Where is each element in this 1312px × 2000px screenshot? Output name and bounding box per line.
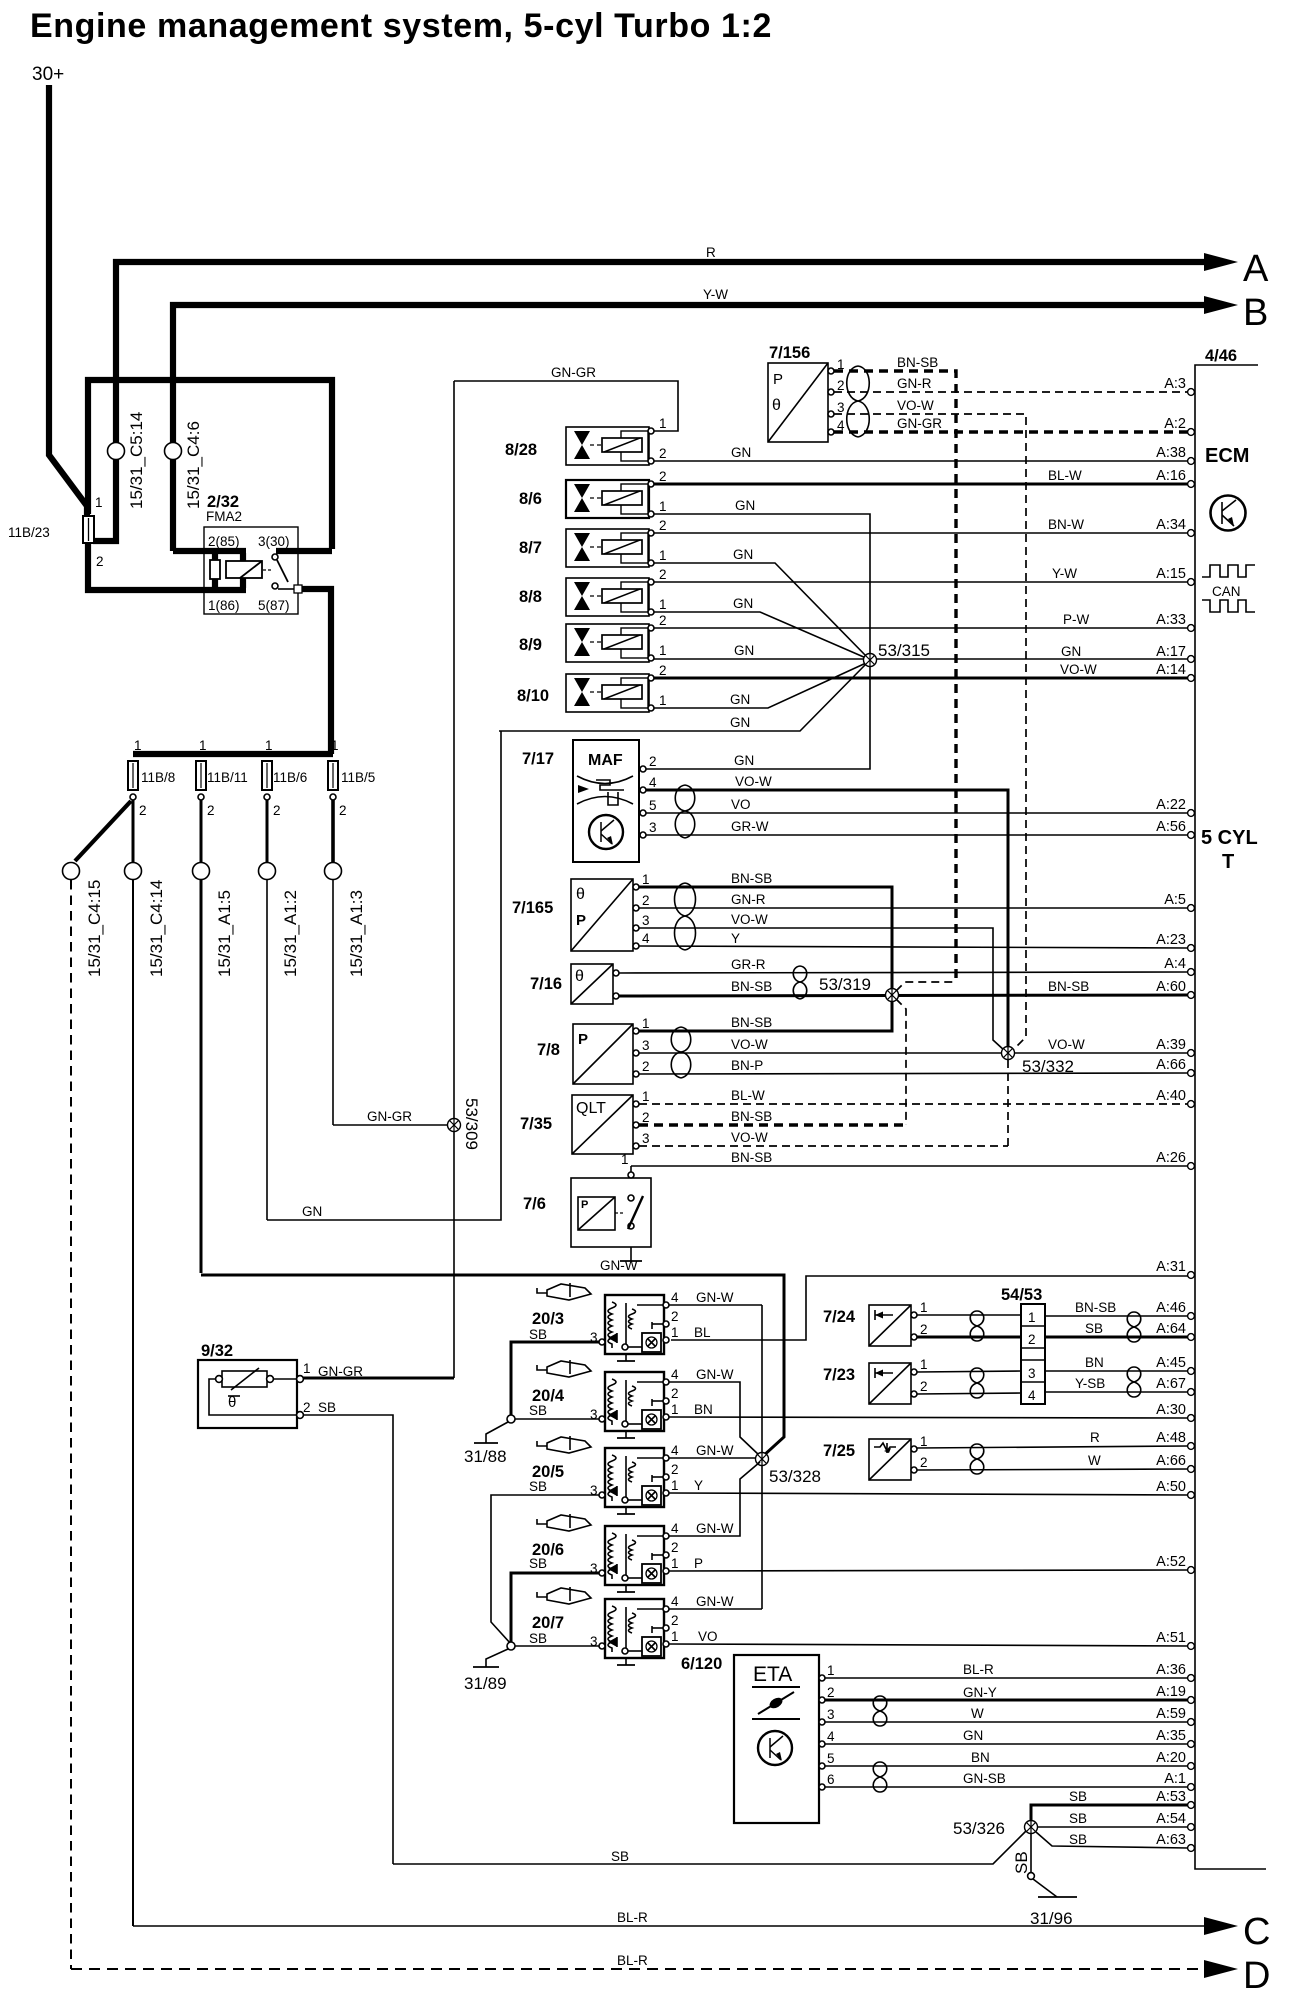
wire 20/3 GN-W	[669, 1304, 762, 1306]
svg-text:A:31: A:31	[1156, 1259, 1186, 1275]
svg-text:15/31_A1:3: 15/31_A1:3	[347, 890, 366, 977]
wire 20/5 GN-W through splice	[669, 1457, 757, 1459]
svg-text:MAF: MAF	[588, 752, 623, 769]
svg-text:GN-W: GN-W	[696, 1367, 734, 1382]
svg-text:2: 2	[649, 754, 657, 769]
svg-text:31/88: 31/88	[464, 1447, 507, 1466]
svg-text:A:3: A:3	[1164, 376, 1186, 392]
splice 53/309	[448, 1098, 482, 1150]
twisted pair 7/23	[970, 1368, 984, 1398]
svg-text:7/156: 7/156	[769, 344, 810, 362]
svg-text:Y-SB: Y-SB	[1075, 1376, 1105, 1391]
svg-text:2: 2	[659, 613, 667, 628]
svg-text:20/3: 20/3	[532, 1310, 564, 1328]
svg-text:A:14: A:14	[1156, 662, 1186, 678]
svg-text:11B/5: 11B/5	[341, 770, 375, 785]
svg-text:A: A	[1243, 248, 1269, 290]
wire relay coil 2(85)	[173, 548, 246, 554]
wire QLT pin2 BN-SB dashed	[639, 1123, 906, 1126]
svg-text:BN: BN	[971, 1750, 990, 1765]
ignition coil 20/5	[529, 1443, 679, 1514]
twisted pair 7/16	[793, 966, 807, 999]
svg-text:8/28: 8/28	[505, 441, 537, 459]
fuse 11B/23	[83, 516, 94, 543]
svg-text:5: 5	[649, 798, 657, 813]
svg-text:A:54: A:54	[1156, 1811, 1186, 1827]
sensor QLT 7/35	[520, 1089, 650, 1154]
wire 54/53 SB to A:64	[1045, 1336, 1188, 1339]
svg-text:P: P	[576, 912, 586, 929]
svg-text:8/9: 8/9	[519, 636, 542, 654]
svg-text:SB: SB	[529, 1556, 547, 1571]
sensor 9/32	[198, 1342, 311, 1428]
wire relay feed 3(30)	[276, 548, 332, 554]
ignition coil 20/4	[529, 1367, 679, 1438]
svg-text:15/31_C4:6: 15/31_C4:6	[184, 421, 203, 509]
connector 15/31_C4:15	[63, 863, 80, 880]
svg-text:VO: VO	[731, 797, 751, 812]
svg-text:3: 3	[837, 400, 845, 415]
svg-text:A:1: A:1	[1164, 1771, 1186, 1787]
svg-text:SB: SB	[1069, 1811, 1087, 1826]
svg-text:A:17: A:17	[1156, 644, 1186, 660]
svg-text:GN: GN	[731, 445, 751, 460]
svg-text:3: 3	[642, 1131, 650, 1146]
wire 53/332 dashed link to QLT pin3	[1007, 1060, 1009, 1146]
svg-text:7/24: 7/24	[823, 1308, 856, 1326]
svg-text:A:45: A:45	[1156, 1355, 1186, 1371]
wire BL-R to C	[133, 1925, 1206, 1927]
svg-text:1: 1	[303, 1361, 311, 1376]
wire 7/156 pin2 GN-R dashed to A:3	[834, 391, 1188, 393]
svg-text:BL-R: BL-R	[617, 1910, 648, 1925]
svg-text:2: 2	[642, 1110, 650, 1125]
svg-text:VO-W: VO-W	[731, 1130, 768, 1145]
svg-text:BN-SB: BN-SB	[897, 355, 938, 370]
fuse 11B/6	[262, 761, 272, 790]
svg-text:A:53: A:53	[1156, 1789, 1186, 1805]
svg-text:A:20: A:20	[1156, 1750, 1186, 1766]
wire 7/25 pin1 R to A:48	[917, 1446, 1188, 1448]
svg-text:A:40: A:40	[1156, 1088, 1186, 1104]
svg-text:7/165: 7/165	[512, 899, 553, 917]
wire 7/25 pin2 W to A:66	[917, 1469, 1188, 1470]
svg-text:A:66: A:66	[1156, 1453, 1186, 1469]
svg-text:A:52: A:52	[1156, 1554, 1186, 1570]
wire coil GN-W bus	[761, 1305, 763, 1609]
fuse 11B/5	[328, 761, 338, 790]
svg-text:BN: BN	[694, 1402, 713, 1417]
svg-text:1: 1	[331, 738, 339, 753]
svg-text:1: 1	[95, 495, 103, 510]
wire QLT pin1 BL-W dashed to A:40	[639, 1103, 1188, 1105]
wire 20/7 SB row	[511, 1645, 599, 1647]
svg-text:GN: GN	[302, 1204, 322, 1219]
svg-text:11B/23: 11B/23	[8, 525, 50, 540]
svg-text:Y: Y	[731, 931, 740, 946]
wire GN-GR rail to injector 8/28	[454, 381, 678, 431]
svg-text:GN: GN	[734, 753, 754, 768]
svg-text:A:36: A:36	[1156, 1662, 1186, 1678]
svg-text:4: 4	[1028, 1388, 1036, 1403]
wire 53/319 dashed link to 7/156	[896, 982, 956, 991]
sensor 7/165	[512, 872, 650, 951]
svg-text:2: 2	[671, 1540, 679, 1555]
svg-text:6: 6	[827, 1772, 835, 1787]
svg-text:1: 1	[920, 1434, 928, 1449]
wire ETA pin5 BN to A:20	[825, 1765, 1188, 1767]
svg-text:SB: SB	[1085, 1321, 1103, 1336]
svg-text:SB: SB	[1069, 1789, 1087, 1804]
wire 54/53 BN-SB to A:46	[1045, 1315, 1188, 1317]
wire 8/6 pin1 GN down to splice	[646, 514, 870, 769]
svg-text:2: 2	[1028, 1332, 1036, 1347]
pressure switch 7/6	[523, 1172, 651, 1261]
svg-text:3: 3	[642, 1038, 650, 1053]
svg-text:GN-GR: GN-GR	[367, 1109, 412, 1124]
svg-text:1: 1	[659, 597, 667, 612]
svg-text:3: 3	[649, 820, 657, 835]
svg-text:A:46: A:46	[1156, 1300, 1186, 1316]
svg-text:3: 3	[827, 1707, 835, 1722]
twisted pair A45/A67	[1127, 1367, 1141, 1397]
svg-text:8/7: 8/7	[519, 539, 542, 557]
wire SB bus	[393, 1831, 1026, 1864]
svg-text:15/31_C5:14: 15/31_C5:14	[127, 412, 146, 509]
sensor 7/8	[537, 1016, 650, 1084]
twisted pair 7/24	[970, 1311, 984, 1341]
svg-text:20/7: 20/7	[532, 1614, 564, 1632]
svg-text:BN-SB: BN-SB	[731, 1015, 772, 1030]
spark plug 20/6	[537, 1514, 591, 1531]
arrow C	[1204, 1917, 1238, 1935]
svg-text:Y: Y	[694, 1478, 703, 1493]
wire ETA pin3 W to A:59	[825, 1721, 1188, 1723]
MAF 7/17	[522, 740, 657, 862]
wire GN-GR feeder	[332, 880, 334, 1125]
wire 7/16 GR-R to A:4	[619, 972, 1188, 973]
svg-text:4/46: 4/46	[1205, 347, 1237, 365]
wire 7/156 pin4 GN-GR dashed to A:2	[834, 430, 1188, 433]
wire 9/32 pin2 SB	[303, 1415, 393, 1864]
wire 20/5 SB	[491, 1495, 599, 1644]
svg-text:53/315: 53/315	[878, 641, 930, 660]
wire 7/156 pin3 VO-W dashed	[834, 414, 1026, 1052]
svg-text:1: 1	[671, 1402, 679, 1417]
svg-text:1: 1	[827, 1663, 835, 1678]
svg-text:4: 4	[671, 1594, 679, 1609]
svg-text:A:51: A:51	[1156, 1630, 1186, 1646]
svg-text:A:63: A:63	[1156, 1832, 1186, 1848]
svg-text:VO: VO	[698, 1629, 718, 1644]
twisted pair 7/165	[675, 883, 696, 950]
svg-text:1: 1	[642, 1016, 650, 1031]
wire 20/7 GN-W	[669, 1608, 762, 1610]
svg-text:53/309: 53/309	[462, 1098, 481, 1150]
svg-text:1: 1	[1028, 1310, 1036, 1325]
svg-text:GN: GN	[963, 1728, 983, 1743]
wire 8/7 pin2 BN-W to A:34	[654, 532, 1188, 534]
wire MAF pin5 VO to A:22	[646, 812, 1188, 814]
node vertical 53/309 feeder	[453, 381, 455, 1378]
svg-text:1(86): 1(86)	[208, 598, 240, 613]
wire 54/53 BN to A:45	[1045, 1370, 1188, 1372]
svg-text:GN-R: GN-R	[897, 376, 932, 391]
svg-text:A:35: A:35	[1156, 1728, 1186, 1744]
svg-text:GN: GN	[730, 692, 750, 707]
wire 7/165 pin2 GN-R to A:5	[639, 907, 1188, 909]
svg-text:θ: θ	[772, 397, 781, 414]
svg-text:BL-W: BL-W	[731, 1088, 765, 1103]
svg-text:ETA: ETA	[753, 1663, 792, 1686]
throttle unit ETA 6/120	[681, 1655, 835, 1823]
wire GN feeder	[266, 880, 268, 1220]
wire MAF pin3 GR-W to A:56	[646, 834, 1188, 836]
svg-text:1: 1	[621, 1152, 629, 1167]
svg-text:B: B	[1243, 292, 1268, 334]
svg-text:GR-W: GR-W	[731, 819, 769, 834]
twisted pair ETA 5-6	[873, 1762, 887, 1792]
wire 9/32 pin1 GN-GR	[303, 1377, 454, 1380]
connector 54/53	[1001, 1286, 1045, 1404]
twisted pair 7/156	[847, 366, 870, 437]
svg-text:53/319: 53/319	[819, 975, 871, 994]
svg-text:VO-W: VO-W	[1048, 1037, 1085, 1052]
wire 7/23 pin2 to 54/53	[917, 1393, 1021, 1394]
svg-text:GN: GN	[735, 498, 755, 513]
wire supply box	[88, 543, 246, 590]
svg-text:W: W	[971, 1706, 984, 1721]
svg-text:5: 5	[827, 1751, 835, 1766]
svg-text:VO-W: VO-W	[735, 774, 772, 789]
svg-text:8/6: 8/6	[519, 490, 542, 508]
svg-text:2(85): 2(85)	[208, 534, 240, 549]
ignition coil 20/6	[529, 1521, 679, 1592]
svg-text:SB: SB	[529, 1327, 547, 1342]
svg-text:T: T	[1222, 851, 1234, 873]
svg-text:A:48: A:48	[1156, 1430, 1186, 1446]
wire 7/8 pin2 BN-P to A:66	[639, 1073, 1188, 1074]
fuse output terminals	[130, 794, 136, 800]
ignition coil 20/7	[529, 1594, 679, 1665]
svg-text:15/31_A1:2: 15/31_A1:2	[281, 890, 300, 977]
wire 8/9 pin1 GN to A:17 through splice	[654, 658, 1188, 660]
svg-text:A:59: A:59	[1156, 1706, 1186, 1722]
svg-text:BN-SB: BN-SB	[731, 871, 772, 886]
svg-text:θ: θ	[575, 968, 584, 985]
svg-text:BN-SB: BN-SB	[731, 979, 772, 994]
svg-text:GN: GN	[733, 596, 753, 611]
svg-text:1: 1	[920, 1300, 928, 1315]
sensor 7/156	[768, 344, 845, 442]
svg-text:2: 2	[659, 567, 667, 582]
svg-text:2: 2	[642, 1059, 650, 1074]
connector 15/31_A1:3	[325, 863, 342, 880]
wire 5(87) down	[302, 589, 331, 754]
wire 7/8 pin3 VO-W to A:39	[639, 1052, 1188, 1054]
svg-text:1: 1	[199, 738, 207, 753]
svg-text:2: 2	[671, 1462, 679, 1477]
svg-text:A:39: A:39	[1156, 1037, 1186, 1053]
wire 7/165 pin1 BN-SB	[637, 887, 892, 1031]
svg-text:BN-P: BN-P	[731, 1058, 763, 1073]
svg-text:4: 4	[671, 1521, 679, 1536]
ground 31/89	[464, 1642, 515, 1693]
svg-text:P: P	[694, 1556, 703, 1571]
sensor 7/24	[823, 1300, 928, 1346]
wire diagonal to C4:15	[75, 801, 131, 861]
svg-text:53/328: 53/328	[769, 1467, 821, 1486]
svg-text:1: 1	[642, 872, 650, 887]
wire GN rail	[267, 731, 501, 1220]
ECM transistor symbol	[1211, 496, 1246, 531]
wire 7/165 pin3 VO-W to 53/332	[639, 928, 1005, 1051]
wire A1:3 drop	[331, 800, 335, 863]
splice 53/326	[953, 1819, 1038, 1838]
wire C feeder	[132, 880, 134, 1926]
svg-text:A:33: A:33	[1156, 612, 1186, 628]
svg-text:1: 1	[659, 643, 667, 658]
svg-text:7/17: 7/17	[522, 750, 554, 768]
fuse 11B/8	[128, 761, 138, 790]
wire ETA pin6 GN-SB to A:1	[825, 1786, 1188, 1788]
wire MAF pin4 VO-W to 53/332	[646, 790, 1008, 1049]
injector 8/7	[519, 518, 667, 567]
svg-text:GN-W: GN-W	[600, 1258, 638, 1273]
wire color labels near ECM	[1048, 468, 1116, 1847]
connector 15/31_C5:14	[108, 443, 125, 460]
wire B (Y-W)	[173, 305, 1206, 551]
wire 8/8 pin1 GN diagonal	[654, 612, 866, 658]
svg-text:7/8: 7/8	[537, 1041, 560, 1059]
svg-text:2: 2	[273, 803, 281, 818]
svg-text:2: 2	[207, 803, 215, 818]
svg-text:A:2: A:2	[1164, 416, 1186, 432]
svg-text:Engine management system, 5-cy: Engine management system, 5-cyl Turbo 1:…	[30, 7, 772, 45]
svg-text:9/32: 9/32	[201, 1342, 233, 1360]
svg-text:7/35: 7/35	[520, 1115, 552, 1133]
svg-text:SB: SB	[1012, 1851, 1031, 1874]
svg-text:1: 1	[659, 416, 667, 431]
svg-text:5 CYL: 5 CYL	[1201, 827, 1258, 849]
svg-text:3(30): 3(30)	[258, 534, 290, 549]
twisted pair 7/25	[970, 1444, 984, 1474]
svg-text:R: R	[1090, 1430, 1100, 1445]
wire 20/6 SB	[511, 1573, 599, 1644]
svg-text:1: 1	[642, 1089, 650, 1104]
injector 8/8	[519, 567, 667, 616]
spark plug 20/4	[537, 1360, 591, 1377]
svg-text:CAN: CAN	[1212, 584, 1241, 599]
svg-text:2: 2	[659, 663, 667, 678]
svg-text:BL: BL	[694, 1325, 711, 1340]
splice 53/332	[1002, 1047, 1075, 1077]
svg-text:BN-W: BN-W	[1048, 517, 1084, 532]
svg-text:SB: SB	[529, 1403, 547, 1418]
svg-text:1: 1	[659, 499, 667, 514]
svg-text:4: 4	[671, 1367, 679, 1382]
svg-text:VO-W: VO-W	[897, 398, 934, 413]
svg-text:2: 2	[837, 378, 845, 393]
svg-text:GN-Y: GN-Y	[963, 1685, 997, 1700]
svg-text:7/6: 7/6	[523, 1195, 546, 1213]
svg-text:GN-GR: GN-GR	[897, 416, 942, 431]
svg-text:GR-R: GR-R	[731, 957, 766, 972]
svg-text:4: 4	[649, 775, 657, 790]
wire 53/319 dashed link to QLT pin2	[896, 999, 906, 1125]
svg-text:11B/8: 11B/8	[141, 770, 175, 785]
wire C4:14 drop	[132, 800, 135, 863]
svg-text:QLT: QLT	[576, 1100, 606, 1117]
svg-text:2: 2	[96, 554, 104, 569]
svg-text:GN-W: GN-W	[696, 1521, 734, 1536]
svg-text:1: 1	[671, 1556, 679, 1571]
svg-text:P: P	[578, 1031, 588, 1048]
svg-text:8/10: 8/10	[517, 687, 549, 705]
wire 54/53 Y-SB to A:67	[1045, 1391, 1188, 1393]
connector 15/31_C4:6	[165, 443, 182, 460]
svg-text:A:22: A:22	[1156, 797, 1186, 813]
svg-text:2: 2	[671, 1309, 679, 1324]
wire 8/28 pin2 GN to A:38	[654, 460, 1188, 462]
svg-text:A:19: A:19	[1156, 1684, 1186, 1700]
splice 53/328	[756, 1453, 822, 1487]
svg-text:4: 4	[671, 1443, 679, 1458]
svg-text:BN-SB: BN-SB	[731, 1109, 772, 1124]
wire 7/16 BN-SB to A:60	[619, 995, 1188, 996]
wire ETA pin4 GN to A:35	[825, 1743, 1188, 1745]
svg-text:A:4: A:4	[1164, 956, 1186, 972]
svg-text:GN: GN	[1061, 644, 1081, 659]
wire 20/5 Y to A:50	[669, 1493, 1188, 1495]
svg-text:8/8: 8/8	[519, 588, 542, 606]
svg-text:4: 4	[642, 931, 650, 946]
svg-text:GN: GN	[730, 715, 750, 730]
wire GN branch row	[499, 664, 866, 731]
connector 15/31_A1:5	[193, 863, 210, 880]
svg-text:2: 2	[659, 469, 667, 484]
svg-text:2: 2	[659, 518, 667, 533]
svg-text:11B/11: 11B/11	[207, 770, 248, 785]
svg-text:30+: 30+	[32, 64, 64, 85]
svg-text:2: 2	[671, 1386, 679, 1401]
sensor 7/25	[823, 1434, 928, 1480]
wire 20/6 P to A:52	[669, 1570, 1188, 1571]
svg-text:D: D	[1243, 1955, 1270, 1997]
injector 8/6	[519, 469, 667, 518]
svg-text:SB: SB	[529, 1479, 547, 1494]
svg-text:1: 1	[671, 1325, 679, 1340]
svg-text:θ: θ	[576, 886, 585, 903]
svg-text:3: 3	[1028, 1366, 1036, 1381]
svg-text:ECM: ECM	[1205, 445, 1249, 467]
wire SB to A:54	[1037, 1826, 1188, 1828]
svg-text:GN-SB: GN-SB	[963, 1771, 1006, 1786]
twisted pair 7/8	[671, 1027, 691, 1078]
ground 31/96	[1030, 1879, 1077, 1928]
svg-text:SB: SB	[318, 1400, 336, 1415]
injector 8/9	[519, 613, 667, 662]
svg-text:1: 1	[265, 738, 273, 753]
svg-text:BN-SB: BN-SB	[731, 1150, 772, 1165]
svg-text:53/326: 53/326	[953, 1819, 1005, 1838]
svg-text:P: P	[581, 1199, 588, 1211]
svg-text:A:16: A:16	[1156, 468, 1186, 484]
svg-text:P-W: P-W	[1063, 612, 1090, 627]
wire 20/4 GN-W	[669, 1382, 760, 1456]
svg-text:15/31_A1:5: 15/31_A1:5	[215, 890, 234, 977]
svg-text:R: R	[706, 245, 716, 260]
